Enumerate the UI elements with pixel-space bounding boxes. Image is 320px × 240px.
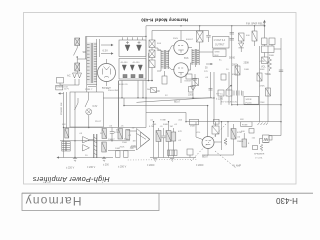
wire: bus y=112.5 bbox=[146, 113, 186, 122]
svg-text:470K: 470K bbox=[114, 132, 120, 134]
dark riser bbox=[118, 81, 120, 128]
svg-text:40-450: 40-450 bbox=[121, 62, 129, 64]
svg-text:BLK: BLK bbox=[215, 55, 220, 57]
svg-text:P.M. SPKR FIELD: P.M. SPKR FIELD bbox=[246, 23, 265, 25]
socket cluster bbox=[168, 150, 178, 156]
divider column right bbox=[267, 52, 269, 122]
svg-text:OUTPUT: OUTPUT bbox=[215, 45, 225, 47]
capacitor C2 bbox=[137, 45, 142, 51]
wire bbox=[86, 84, 88, 93]
wire bbox=[108, 150, 135, 152]
svg-text:± 1200: ± 1200 bbox=[216, 99, 224, 101]
resistor R31 bbox=[187, 149, 193, 155]
wire to transformer bbox=[77, 58, 87, 60]
resistor R33 bbox=[162, 76, 167, 84]
svg-text:1M: 1M bbox=[133, 141, 136, 143]
wire right riser bbox=[231, 26, 233, 105]
wire: bus y=140.8 bbox=[60, 140, 130, 142]
resistor R11 bbox=[253, 146, 258, 150]
svg-text:1 A: 1 A bbox=[252, 137, 256, 140]
wire bbox=[145, 98, 147, 128]
resistor boxes mid bbox=[186, 74, 192, 79]
svg-text:100K: 100K bbox=[260, 69, 266, 71]
switch S3 bbox=[77, 98, 79, 103]
arrow tap bbox=[206, 63, 212, 65]
switch box on bus bbox=[214, 119, 220, 124]
wire: bus y=104.8 bbox=[232, 104, 281, 106]
wire bbox=[169, 67, 175, 70]
speaker tap label box bbox=[213, 37, 230, 49]
svg-text:1 VOLT 3-4: 1 VOLT 3-4 bbox=[214, 40, 226, 42]
svg-text:VOL: VOL bbox=[196, 132, 201, 134]
riser x=228 bbox=[227, 122, 229, 137]
footer rule bbox=[22, 192, 313, 194]
resistor R25 bbox=[102, 142, 107, 152]
wire: caps bottom bus bbox=[119, 80, 153, 82]
winding shade bbox=[192, 49, 200, 65]
svg-text:40-450: 40-450 bbox=[133, 62, 141, 64]
fuse F2 bbox=[75, 63, 80, 71]
wire: bus y=127.5 bbox=[64, 127, 147, 129]
wire: B+ top bus bbox=[146, 26, 265, 98]
svg-text:117V: 117V bbox=[64, 88, 69, 90]
output transformer T3 bbox=[191, 49, 193, 65]
svg-text:Harmony Model H-430: Harmony Model H-430 bbox=[141, 17, 188, 22]
wire bbox=[207, 148, 209, 155]
svg-text:6EU7: 6EU7 bbox=[174, 101, 181, 104]
resistor R19 bbox=[65, 129, 69, 139]
resistor R4 on B+ bus bbox=[197, 31, 204, 42]
resistor R3 bbox=[149, 60, 155, 68]
tone stack triangle bbox=[137, 129, 151, 151]
wire: screen bus bbox=[152, 31, 209, 41]
svg-text:High-Power Amplifiers: High-Power Amplifiers bbox=[32, 175, 109, 184]
wire bbox=[130, 146, 137, 148]
riser x=221.5 bbox=[221, 122, 223, 150]
capacitor C5 bbox=[138, 65, 142, 71]
AC plug P1 bbox=[76, 71, 78, 73]
svg-text:6V6GT: 6V6GT bbox=[186, 39, 194, 41]
preamp tube V3 6EU7 bbox=[202, 137, 214, 149]
wire bbox=[148, 53, 150, 81]
footer Harmony box bbox=[22, 193, 159, 210]
svg-text:100K: 100K bbox=[115, 148, 121, 150]
riser x=243 bbox=[242, 91, 244, 96]
speaker terminal bbox=[264, 25, 266, 27]
svg-text:SPKR: SPKR bbox=[246, 99, 252, 101]
transformer base bbox=[87, 85, 98, 87]
resistor R24 bbox=[66, 142, 70, 152]
slanted wire bbox=[137, 98, 213, 103]
output tube V2 6V6 bbox=[174, 63, 188, 77]
svg-text:POWER SW: POWER SW bbox=[61, 102, 63, 115]
riser x=173.5 bbox=[173, 128, 175, 158]
resistor R1 bbox=[149, 40, 155, 48]
wire bbox=[151, 58, 153, 61]
wire bbox=[151, 68, 153, 81]
pilot lamp box bbox=[70, 92, 103, 127]
svg-text:50 60: 50 60 bbox=[229, 57, 236, 60]
wire bbox=[180, 31, 182, 41]
resistor R14 zigzag bbox=[224, 138, 227, 145]
ground bbox=[73, 159, 77, 162]
svg-text:Harmony: Harmony bbox=[24, 194, 81, 208]
resistor R20 bbox=[102, 129, 107, 139]
svg-text:4.7M: 4.7M bbox=[260, 61, 265, 63]
svg-text:PWR. T: PWR. T bbox=[85, 89, 93, 91]
diode rectifier SE1 bbox=[239, 43, 244, 48]
capacitor C3 bbox=[122, 65, 126, 71]
ground bbox=[153, 159, 157, 162]
wire bbox=[157, 69, 161, 71]
capacitor C10 bbox=[111, 128, 113, 132]
svg-text:± 220 V: ± 220 V bbox=[66, 167, 75, 170]
svg-text:H-430: H-430 bbox=[276, 196, 298, 205]
wire bbox=[130, 130, 137, 132]
filter capacitor box B bbox=[119, 59, 146, 80]
diode D2 bbox=[83, 145, 90, 152]
resistor R12 zigzag bbox=[260, 144, 262, 151]
interlock box bbox=[57, 78, 64, 84]
svg-text:470K: 470K bbox=[260, 86, 266, 88]
riser bbox=[123, 98, 125, 106]
wire drop bbox=[142, 81, 144, 98]
svg-text:N. AMP: N. AMP bbox=[233, 165, 242, 168]
lead color box bbox=[213, 49, 226, 57]
svg-text:PLUG: PLUG bbox=[246, 102, 252, 104]
svg-text:TO VOICE COIL: TO VOICE COIL bbox=[221, 102, 238, 104]
wire bbox=[76, 46, 78, 49]
svg-text:450V: 450V bbox=[232, 74, 238, 76]
wire bbox=[274, 48, 281, 50]
resistor R5 bbox=[239, 33, 245, 41]
resistor R6 bbox=[262, 57, 269, 64]
diode D1 bbox=[83, 137, 90, 144]
pilot lamp I1 bbox=[86, 109, 92, 115]
wire: ground bus y=157.5 bbox=[58, 157, 114, 159]
wire: bus y=104.8 left stub bbox=[124, 105, 208, 107]
wire into tube V3 bbox=[195, 122, 197, 137]
svg-text:TO V.C.: TO V.C. bbox=[216, 94, 224, 96]
wire bbox=[213, 98, 215, 122]
wire drop bbox=[121, 81, 123, 98]
wire bbox=[169, 46, 175, 53]
svg-text:V. COIL: V. COIL bbox=[255, 158, 263, 160]
svg-text:200K: 200K bbox=[269, 55, 275, 57]
ganged control dashed line bbox=[191, 124, 226, 161]
wire bbox=[260, 139, 263, 145]
wire bbox=[151, 48, 153, 51]
rail C bbox=[74, 92, 76, 158]
svg-text:1M: 1M bbox=[170, 126, 173, 128]
divider column left bbox=[259, 52, 261, 122]
wire bbox=[96, 84, 98, 93]
resistor R23 bbox=[62, 142, 66, 152]
svg-text:± 230 V: ± 230 V bbox=[87, 166, 96, 169]
svg-text:GRN: GRN bbox=[215, 52, 220, 54]
socket terminal boxes bbox=[218, 90, 224, 96]
wire bbox=[199, 51, 213, 53]
svg-text:FUSE: FUSE bbox=[242, 124, 248, 126]
winding shade bbox=[86, 43, 97, 84]
resistor R30 bbox=[242, 139, 247, 147]
resistor R29 bbox=[254, 26, 256, 31]
resistor R2 bbox=[149, 50, 155, 58]
svg-text:500K: 500K bbox=[163, 124, 169, 126]
fuse box bbox=[241, 122, 253, 127]
svg-text:PILOT: PILOT bbox=[95, 121, 102, 123]
wire bbox=[214, 141, 222, 143]
resistor R7 zigzag bbox=[268, 57, 272, 71]
wire bbox=[96, 39, 98, 43]
svg-text:6EU7: 6EU7 bbox=[202, 156, 209, 159]
jack terminal lugs bbox=[262, 38, 268, 45]
ground bbox=[102, 159, 106, 162]
resistor R17 bbox=[166, 131, 171, 142]
wire bbox=[76, 57, 78, 63]
wire bbox=[220, 96, 222, 105]
resistor R26 bbox=[116, 151, 121, 158]
svg-text:350-0-350: 350-0-350 bbox=[108, 90, 119, 92]
label box 600 bbox=[249, 129, 254, 134]
svg-text:250K: 250K bbox=[120, 147, 125, 149]
resistor R9 bbox=[266, 88, 271, 96]
jack box bbox=[262, 46, 275, 53]
riser x=158.5 bbox=[158, 128, 160, 158]
svg-text:SR: SR bbox=[83, 50, 87, 54]
wire plate V1 bbox=[188, 47, 192, 49]
resistor R15 bbox=[231, 129, 236, 140]
wire bbox=[264, 26, 266, 38]
resistor R8 bbox=[257, 73, 262, 81]
svg-text:± 2000: ± 2000 bbox=[196, 164, 204, 167]
wire bbox=[90, 139, 94, 141]
interstage transformer T2 bbox=[160, 50, 162, 69]
svg-text:TONE: TONE bbox=[160, 120, 166, 122]
svg-text:6.3V: 6.3V bbox=[93, 106, 98, 108]
resistor R13 bbox=[212, 126, 219, 134]
capacitor C8 bbox=[279, 70, 283, 72]
svg-text:22K: 22K bbox=[127, 130, 131, 132]
wire bbox=[155, 48, 161, 50]
capacitor C7 bbox=[230, 33, 234, 41]
fuse F1 bbox=[75, 38, 80, 46]
wire bbox=[195, 65, 197, 67]
svg-text:250K: 250K bbox=[190, 126, 196, 128]
svg-text:250K: 250K bbox=[244, 62, 250, 65]
svg-text:AC: AC bbox=[67, 74, 71, 78]
resistor R32 bbox=[151, 88, 157, 93]
svg-text:100K: 100K bbox=[244, 69, 250, 71]
resistor R16 bbox=[156, 131, 161, 142]
wire: bus y=121.7 bbox=[186, 121, 281, 123]
switch S1 bbox=[74, 48, 78, 56]
wire bbox=[180, 77, 182, 83]
resistor R10 bbox=[235, 66, 240, 75]
capacitor C6 bbox=[208, 31, 210, 36]
riser x=233.5 bbox=[233, 124, 235, 155]
resistor R27 bbox=[124, 151, 129, 158]
resistor R22 bbox=[126, 130, 130, 140]
ground hatches bbox=[258, 123, 269, 126]
dotted chassis line bbox=[128, 159, 197, 162]
svg-text:40 40 20: 40 40 20 bbox=[119, 84, 128, 86]
riser x=237.5 bbox=[237, 64, 239, 105]
wire bbox=[259, 46, 261, 52]
switch S2 bbox=[88, 92, 90, 100]
wire: left top bus bbox=[86, 37, 147, 60]
svg-text:± 200: ± 200 bbox=[103, 165, 109, 167]
filter can C11 bbox=[93, 134, 95, 158]
svg-text:220K: 220K bbox=[260, 102, 266, 104]
transformer T1 core bbox=[90, 43, 92, 83]
svg-text:1500: 1500 bbox=[188, 95, 194, 97]
AC terminal arrow bbox=[59, 93, 64, 95]
wire bbox=[202, 154, 234, 156]
rail A bbox=[63, 92, 65, 158]
rectifier tube V4 5Y3GT bbox=[98, 64, 116, 82]
input box on bus bbox=[190, 119, 199, 125]
resistor R18 bbox=[171, 132, 176, 141]
wire bbox=[150, 157, 196, 159]
border frame bbox=[24, 13, 297, 185]
winding shade bbox=[161, 50, 169, 69]
wire plate V2 bbox=[188, 63, 192, 70]
capacitor C1 bbox=[125, 45, 130, 51]
svg-text:47K: 47K bbox=[178, 131, 182, 133]
svg-text:± 200 V: ± 200 V bbox=[118, 166, 127, 169]
capacitor C4 bbox=[130, 65, 134, 71]
wire bbox=[264, 53, 266, 58]
wire drop bbox=[137, 81, 139, 98]
power transformer T1 primary bbox=[86, 43, 88, 84]
heater box 6.3V bbox=[99, 39, 101, 57]
svg-text:1MEG: 1MEG bbox=[237, 141, 243, 143]
svg-text:SPEAKER: SPEAKER bbox=[254, 153, 265, 156]
svg-text:470K: 470K bbox=[237, 132, 243, 134]
svg-text:± 2000: ± 2000 bbox=[147, 164, 155, 167]
wire bbox=[86, 37, 88, 43]
output jack J1 bbox=[263, 135, 270, 143]
resistor R28 bbox=[192, 79, 199, 86]
svg-text:6V6GT: 6V6GT bbox=[185, 81, 193, 83]
riser x=163.5 with capacitor C9 bbox=[163, 128, 165, 136]
svg-text:350V: 350V bbox=[173, 38, 179, 40]
terminal lugs bbox=[123, 75, 127, 78]
svg-text:250K: 250K bbox=[131, 146, 137, 148]
riser x=153.5 bbox=[153, 122, 155, 158]
transistor-style triangle bbox=[191, 86, 196, 91]
ground bbox=[170, 159, 174, 162]
wire bbox=[269, 135, 281, 137]
wire: bus y=98 bbox=[103, 97, 214, 99]
svg-text:6.3V: 6.3V bbox=[103, 49, 109, 53]
svg-text:4.7M: 4.7M bbox=[149, 126, 154, 128]
speaker plug box bbox=[244, 96, 259, 104]
rail B bbox=[66, 92, 68, 128]
wire right edge bbox=[280, 38, 282, 136]
resistor R21 bbox=[118, 129, 123, 140]
svg-text:1500: 1500 bbox=[122, 142, 128, 144]
filter capacitor box A bbox=[119, 40, 146, 57]
svg-text:6V6: 6V6 bbox=[184, 57, 189, 60]
riser x=168.5 bbox=[168, 122, 170, 158]
transformer T1 secondary bbox=[96, 43, 98, 84]
output tube V1 6V6 bbox=[174, 40, 188, 54]
junction dots bbox=[145, 36, 146, 37]
ganged control dashed line 2 bbox=[215, 151, 236, 168]
